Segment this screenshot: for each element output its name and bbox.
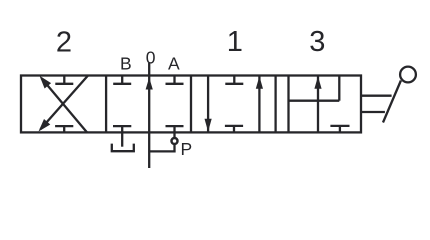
position 2: blocked port bottom [55,126,73,132]
lever knob [400,67,416,83]
svg-text:3: 3 [309,26,325,58]
wire: pressure supply line through neutral position [148,63,150,168]
lever upper link [361,95,392,97]
svg-text:B: B [120,54,132,74]
position 0: blocked port A [166,76,184,84]
svg-text:1: 1 [227,26,243,58]
position divider 0/1 [190,76,192,133]
position 0: blocked port to tank, with stem to tank symbol [113,126,131,147]
position 1: flow path B-to-T down arrow [205,76,212,133]
position 3: A line stub [338,76,340,101]
position 3: blocked port bottom [330,126,349,132]
flow arrow up in neutral bypass [146,78,153,90]
svg-text:A: A [168,54,180,74]
position divider 1/3 [274,76,276,133]
position 2: crossed flow path arrow P-to-B [40,76,88,133]
position 3: B line vertical [287,76,289,133]
valve body outline [21,76,361,133]
position 0: blocked port B [113,76,131,84]
wire: P node branch to supply line [149,145,174,152]
position 1: flow path P-to-A up arrow [256,76,263,133]
position 3: flow path up arrow [314,76,321,133]
position 0: blocked port to P node [166,126,184,137]
node P circle [172,138,178,144]
position divider 2/0 [105,76,107,133]
lever lower link [361,111,385,113]
lever arm [383,81,401,123]
position 2: crossed flow path arrow A-to-T [39,76,89,132]
position 2: blocked port top [55,76,73,84]
svg-text:P: P [180,139,192,159]
svg-text:0: 0 [146,48,156,68]
position 1: blocked port top [225,76,243,84]
position 1: blocked port bottom [225,126,243,132]
position 3: internal connecting wire [289,100,340,102]
svg-text:2: 2 [56,27,72,59]
tank symbol [112,144,134,152]
